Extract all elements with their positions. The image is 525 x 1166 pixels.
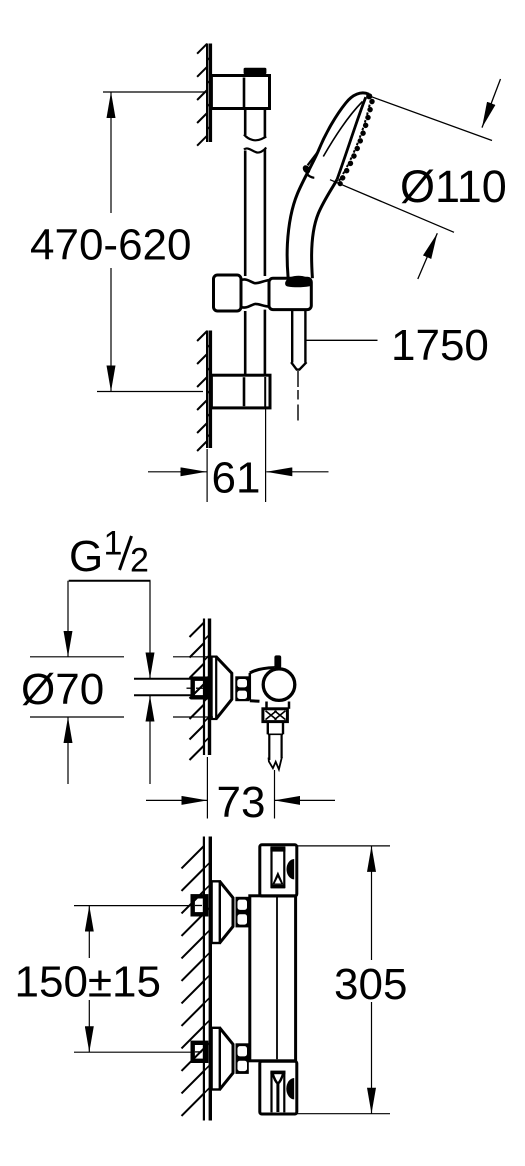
svg-text:150±15: 150±15 bbox=[15, 958, 162, 1007]
svg-text:61: 61 bbox=[212, 454, 261, 503]
svg-text:Ø110: Ø110 bbox=[400, 161, 507, 212]
svg-text:2: 2 bbox=[130, 542, 149, 580]
svg-text:305: 305 bbox=[334, 960, 407, 1009]
svg-text:1750: 1750 bbox=[391, 321, 489, 370]
svg-text:1: 1 bbox=[104, 525, 123, 563]
svg-text:Ø70: Ø70 bbox=[21, 665, 104, 714]
svg-text:G: G bbox=[69, 532, 103, 581]
svg-text:470-620: 470-620 bbox=[30, 221, 191, 270]
svg-text:73: 73 bbox=[217, 778, 266, 827]
